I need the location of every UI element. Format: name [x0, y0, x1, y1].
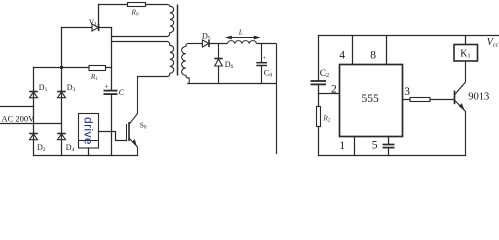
capacitor C0: [256, 63, 267, 66]
inductor L: [228, 41, 257, 44]
svg-text:D2: D2: [37, 143, 46, 153]
wire pin 8: [386, 36, 388, 65]
svg-text:D3: D3: [67, 83, 76, 93]
diode D6: [214, 59, 222, 67]
wire center node vertical: [111, 28, 113, 90]
wire pin 2: [319, 93, 340, 95]
svg-text:Vcc: Vcc: [487, 37, 499, 49]
resistor R1: [89, 66, 106, 71]
svg-text:+: +: [105, 82, 109, 90]
svg-text:5: 5: [372, 140, 378, 152]
diode V1: [92, 24, 99, 31]
wire upper winding bottom lead: [112, 36, 168, 38]
wire V1 row: [62, 27, 112, 29]
wire below capacitor C: [111, 95, 113, 155]
wire lower winding top lead: [112, 41, 168, 43]
wire K1 to rail: [465, 36, 467, 45]
transistor 9013: [455, 61, 466, 156]
wire pin 4: [352, 36, 354, 65]
svg-text:R0: R0: [130, 8, 139, 18]
svg-text:R2: R2: [322, 114, 331, 124]
svg-text:555: 555: [362, 93, 380, 105]
transformer core: [177, 5, 179, 76]
svg-text:D5: D5: [202, 32, 211, 42]
wire bridge left column: [33, 68, 35, 156]
wire bottom rail: [34, 155, 138, 157]
svg-text:L: L: [238, 28, 243, 37]
transformer secondary winding: [182, 44, 190, 84]
transistor S0: [127, 77, 138, 156]
svg-text:+: +: [263, 56, 267, 62]
wire pin 5: [388, 137, 390, 156]
wire drive output to gate: [99, 132, 127, 141]
svg-text:V1: V1: [89, 17, 97, 27]
svg-text:D1: D1: [39, 83, 48, 93]
wire secondary bottom rail: [187, 83, 276, 85]
wire pin 1: [354, 137, 356, 156]
capacitor at pin 5: [383, 145, 395, 148]
resistor R0: [128, 3, 146, 7]
svg-text:D6: D6: [225, 60, 234, 70]
svg-text:C: C: [119, 88, 125, 97]
diode D1: [29, 92, 38, 98]
wire bridge right column: [61, 28, 63, 156]
svg-text:K1: K1: [460, 49, 470, 60]
wire left vertical C2 R2: [318, 36, 320, 156]
capacitor C2: [311, 81, 327, 84]
svg-text:AC 200V: AC 200V: [2, 114, 36, 124]
wire drive box ground stub: [88, 148, 90, 156]
resistor pin3 to base: [410, 98, 430, 102]
wire V1 cathode riser to R0: [98, 5, 100, 28]
wire top Vcc rail: [319, 35, 499, 37]
wire pin 3: [403, 99, 454, 101]
wire AC bottom input: [0, 123, 62, 125]
wire bottom rail: [319, 155, 466, 157]
svg-text:1: 1: [339, 140, 345, 152]
svg-text:4: 4: [339, 49, 345, 61]
svg-text:S0: S0: [140, 120, 147, 130]
wire top DC rail with R1: [34, 67, 112, 69]
svg-text:drive: drive: [82, 117, 96, 145]
dimension line for L: [227, 37, 259, 39]
wire R0 top line: [99, 4, 168, 6]
wire collector to lower winding: [138, 76, 168, 78]
555 IC box U1: [340, 65, 403, 137]
wire AC top input: [0, 106, 34, 108]
wire C0 branch: [261, 44, 263, 84]
wire output vertical line: [276, 44, 278, 155]
svg-text:D4: D4: [66, 143, 75, 153]
svg-text:2: 2: [331, 83, 337, 95]
drive box: [79, 114, 99, 149]
wire D6 branch: [218, 44, 220, 84]
svg-text:3: 3: [404, 86, 410, 98]
relay K1 box: [454, 45, 478, 62]
wire secondary top to D5: [189, 43, 203, 45]
diode D3: [57, 92, 66, 98]
resistor R2: [317, 107, 321, 127]
svg-text:C2: C2: [320, 69, 329, 79]
wire L to output: [257, 43, 277, 45]
capacitor C: [104, 91, 118, 95]
svg-text:8: 8: [370, 49, 376, 61]
transformer upper primary winding: [167, 5, 174, 37]
svg-text:C0: C0: [264, 68, 273, 79]
diode D2: [29, 134, 38, 140]
diode D4: [57, 134, 66, 140]
transformer lower primary winding: [167, 42, 174, 77]
svg-text:R1: R1: [90, 72, 98, 82]
node dot junction: [60, 66, 63, 69]
wire D5 to L: [209, 43, 228, 45]
svg-text:9013: 9013: [468, 92, 489, 103]
diode D5: [202, 40, 209, 47]
